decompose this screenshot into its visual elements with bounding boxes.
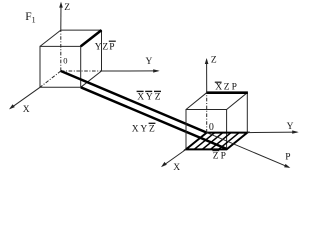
svg-text:Z: Z xyxy=(64,3,70,13)
Z axis right (hidden dash-dot part) xyxy=(206,93,208,133)
left cube top-back edge xyxy=(61,29,102,31)
X axis left arrowhead xyxy=(9,104,15,109)
right cube bold top-back edge X-bar Z P xyxy=(206,91,248,94)
left cube front face xyxy=(40,46,81,87)
svg-text:Y: Y xyxy=(287,122,294,132)
Y axis left (hidden dashed part along back-bottom edge) xyxy=(61,70,102,72)
P axis arrowhead xyxy=(284,164,290,168)
Y axis right arrowhead xyxy=(292,130,299,133)
Y axis right (solid part) xyxy=(247,131,297,134)
svg-text:Z: Z xyxy=(149,124,155,134)
svg-text:Z: Z xyxy=(102,42,108,52)
right cube front face xyxy=(186,110,227,150)
svg-text:Z: Z xyxy=(155,93,161,103)
right cube top-left depth edge xyxy=(186,93,207,110)
svg-text:X: X xyxy=(173,163,180,173)
Y axis left arrowhead xyxy=(153,69,160,72)
svg-text:0: 0 xyxy=(63,55,67,65)
left cube bold edge YZP- (term Y Z notP) xyxy=(81,30,102,46)
P axis (4th variable) from right origin xyxy=(207,133,289,168)
right cube top-right depth edge xyxy=(227,93,248,110)
svg-text:Z: Z xyxy=(224,83,230,93)
svg-text:Y: Y xyxy=(140,124,147,134)
svg-text:X: X xyxy=(215,83,222,93)
Z axis right (solid part) xyxy=(206,60,208,93)
Y axis left (solid part) xyxy=(102,70,159,72)
wire: bold connector edge X-bar Y-bar Z-bar (joins 000 vertices) xyxy=(61,71,207,133)
left cube top-left depth edge xyxy=(40,30,61,46)
svg-text:Z: Z xyxy=(213,152,219,162)
left cube bottom-right depth edge xyxy=(81,71,102,87)
svg-text:Y: Y xyxy=(95,42,102,52)
X axis right (solid part) xyxy=(162,149,186,166)
svg-text:P: P xyxy=(232,83,237,93)
svg-text:X: X xyxy=(132,124,139,134)
Z axis left arrowhead xyxy=(59,2,63,8)
svg-text:Y: Y xyxy=(146,57,153,67)
Z axis left (hidden dash-dot part) xyxy=(60,30,62,71)
right cube back-right vertical edge xyxy=(246,93,248,133)
svg-text:0: 0 xyxy=(209,122,214,133)
svg-text:Z: Z xyxy=(211,56,217,66)
Z axis left (solid part) xyxy=(60,3,62,30)
wire: bold connector edge X Y Z-bar (joins 110 vertices) xyxy=(81,87,227,149)
hatching of bottom face xyxy=(194,133,215,150)
hatched bottom face Z-bar P (thick border) xyxy=(186,133,247,150)
svg-text:P: P xyxy=(109,42,114,52)
svg-text:X: X xyxy=(137,93,144,103)
X axis left (solid part) xyxy=(10,87,40,108)
overbar on P xyxy=(109,40,116,42)
X axis right arrowhead xyxy=(161,162,167,167)
X axis left (hidden dashed part to front-bottom-left corner) xyxy=(40,71,61,87)
left cube back-right vertical edge xyxy=(101,30,103,71)
svg-text:X: X xyxy=(23,105,30,115)
svg-text:P: P xyxy=(285,153,290,163)
svg-text:Y: Y xyxy=(146,93,153,103)
Z axis right arrowhead xyxy=(205,58,209,64)
svg-text:P: P xyxy=(221,152,226,162)
